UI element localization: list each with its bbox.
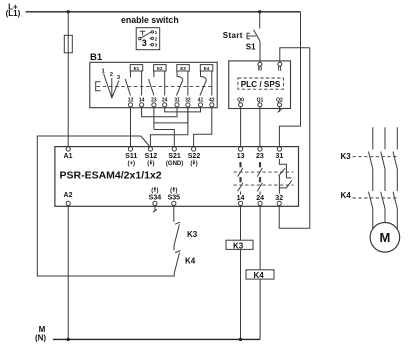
E3 hook arc (177, 77, 183, 81)
E3 blade (177, 80, 183, 95)
PSR contact 13-14 upper fixed (239, 162, 241, 167)
B1 actuator dashed linkage (97, 85, 214, 87)
svg-text:I0: I0 (258, 67, 262, 73)
B1 selector position labels 1 2 3 (102, 68, 120, 81)
svg-text:3: 3 (117, 75, 120, 81)
PSR NC blade 2 (286, 180, 292, 188)
enable switch contact numbers (142, 30, 158, 48)
K4 main blade 2 (381, 192, 385, 209)
phase line 3 lower (396, 209, 398, 230)
wire B1:42 to S22 (194, 107, 212, 147)
svg-text:(N): (N) (35, 333, 46, 342)
wire S1 to I0 (259, 41, 261, 62)
node L+ (L1) label (6, 3, 21, 19)
contact K4 aux tick (175, 251, 180, 253)
PSR contact 23-24 blade 2 (257, 183, 262, 192)
junction dot K3 on M rail (239, 338, 242, 341)
K3 main blade 1 (369, 152, 373, 170)
enable switch contact 2 (149, 38, 151, 40)
PSR top terminal labels (64, 153, 284, 160)
svg-text:S11: S11 (125, 153, 137, 160)
E4 hook arc (201, 77, 207, 81)
motor M circle (370, 223, 400, 253)
wire B1:23 to S21 (154, 130, 174, 147)
PSR terminal 31 (277, 147, 281, 151)
junction dot A2 on M rail (67, 338, 70, 341)
PSR NC contact 31-32 path (279, 159, 291, 194)
E3 fixed lead (176, 71, 178, 77)
PSR terminal A1 (66, 147, 70, 151)
enable switch blade (141, 32, 151, 38)
wire loop I1 to PSR 32 (279, 48, 310, 229)
PSR terminal S35 (172, 201, 176, 205)
svg-text:S21: S21 (168, 153, 181, 160)
wire B1:23 to B1:32 (154, 107, 188, 130)
svg-text:K3: K3 (233, 241, 244, 250)
wire PSR 14 to K3 coil (240, 206, 242, 241)
PSR contact 23-24 upper fixed (259, 162, 261, 167)
switch S1 blade (254, 30, 260, 41)
wire L+ rail (26, 11, 301, 13)
phase line 1 lower (372, 209, 374, 229)
contact K3 aux tick (175, 222, 180, 224)
PSR terminal 32 (277, 201, 281, 205)
enable switch T handle (140, 31, 146, 35)
wire B1:24 to B1:41 (165, 107, 201, 112)
K3 main linkage dashes (353, 156, 399, 158)
wire M(N) rail (53, 338, 260, 340)
svg-text:2: 2 (110, 72, 113, 78)
enable switch contact 3 (149, 44, 151, 46)
svg-text:K4: K4 (185, 257, 196, 266)
junction dot S1 feed (258, 10, 261, 13)
E2 right lead (164, 71, 166, 96)
PSR contact 13-14 blade 1 (238, 168, 243, 177)
svg-text:(GND): (GND) (166, 161, 183, 167)
svg-text:I1: I1 (278, 67, 282, 73)
wire L+ to A1 (67, 12, 69, 147)
PSR terminal S21 (172, 147, 176, 151)
K4 main linkage dashes (353, 197, 399, 199)
E4 right lead (211, 71, 213, 96)
B1 selector arrow head (110, 94, 113, 99)
PSR terminal 23 (258, 147, 262, 151)
B1 terminal labels (128, 97, 215, 103)
PSR bottom terminal labels (64, 192, 284, 202)
wire B1:32 to S12 (150, 107, 188, 147)
E3 right lead (187, 71, 189, 96)
contact block E2 box (154, 65, 167, 71)
PSR contact 23-24 middle fixed (259, 177, 261, 182)
svg-text:E3: E3 (180, 66, 186, 71)
S34 stub with tick (153, 206, 157, 213)
enable switch common contact (139, 37, 141, 39)
svg-text:S34: S34 (149, 195, 162, 202)
PLC output Q1 terminal (258, 103, 262, 107)
svg-text:1: 1 (155, 30, 158, 35)
E2 blade (149, 79, 154, 96)
PSR terminal S34 (153, 201, 157, 205)
PLC output Q2 terminal (278, 103, 282, 107)
PSR contact 13-14 lower lead (240, 191, 242, 194)
PSR contact 13-14 blade 2 (238, 183, 243, 192)
phase line 2 lower (384, 209, 386, 223)
K4 main blade 3 (393, 192, 397, 209)
PSR terminal 14 (238, 201, 242, 205)
PSR contact 13-14 middle fixed (239, 177, 241, 182)
svg-text:K4: K4 (341, 191, 352, 200)
svg-text:E2: E2 (157, 66, 163, 71)
PSR linkage dashes row 2 (234, 184, 294, 186)
svg-text:PLC / SPS: PLC / SPS (241, 80, 281, 89)
E1 blade (125, 79, 130, 96)
contact block E4 box (200, 65, 213, 71)
svg-text:3: 3 (142, 38, 147, 48)
svg-text:K3: K3 (187, 230, 198, 239)
enable switch box (136, 28, 160, 50)
relay PSR-ESAM4 box (55, 147, 299, 207)
svg-text:(+): (+) (128, 161, 136, 167)
PLC output Q0 terminal (239, 103, 243, 107)
phase line 3 middle (396, 169, 398, 191)
svg-text:Start: Start (223, 31, 243, 40)
contact block E3 box (177, 65, 190, 71)
svg-text:K4: K4 (254, 271, 265, 280)
PSR NC blade 1 (278, 168, 285, 176)
svg-text:S12: S12 (145, 153, 158, 160)
E4 fixed lead (200, 71, 202, 77)
relay coil K4 box (246, 270, 274, 279)
contact block E1 box (130, 65, 143, 71)
svg-text:S22: S22 (188, 153, 201, 160)
switch B1 box (90, 62, 217, 107)
svg-text:23: 23 (256, 153, 264, 160)
E2 fixed lead (153, 71, 155, 77)
svg-text:2: 2 (155, 37, 158, 42)
wire B1:14 to B1:31 (142, 107, 177, 117)
svg-text:A1: A1 (64, 153, 73, 160)
wire S35 down (173, 206, 175, 222)
PLC input I1 terminal (278, 62, 282, 66)
three phase line 1 upper (372, 127, 374, 149)
PSR terminal 24 (258, 201, 262, 205)
relay coil K3 box (226, 240, 253, 249)
svg-text:A2: A2 (64, 192, 73, 199)
wire Q1 to PSR 23 (259, 107, 261, 147)
three phase line 3 upper (396, 127, 398, 149)
wire PSR 24 to K4 coil (259, 206, 261, 270)
K4 main blade 1 (369, 192, 373, 209)
wire between aux contacts (173, 246, 175, 251)
PSR terminal S12 (148, 147, 152, 151)
wire I1 up and right (280, 48, 310, 63)
svg-text:(L1): (L1) (6, 9, 21, 18)
wire K4 aux to left loop (37, 136, 174, 276)
PSR terminal A2 (66, 201, 70, 205)
contact K4 aux blade (174, 253, 179, 273)
svg-text:S1: S1 (246, 43, 256, 52)
three phase line 2 upper (384, 127, 386, 149)
svg-text:E4: E4 (204, 66, 210, 71)
junction dot A1 feed (67, 10, 70, 13)
node M (N) label (35, 325, 46, 342)
svg-text:PSR-ESAM4/2x1/1x2: PSR-ESAM4/2x1/1x2 (60, 169, 162, 181)
B1 terminal circles (128, 103, 214, 107)
wire K4 coil to M rail (259, 279, 261, 339)
PLC output labels (237, 97, 283, 103)
PSR terminal 13 (239, 147, 243, 151)
Q2 stub with tick (277, 107, 281, 113)
svg-text:1: 1 (102, 68, 105, 74)
fuse F1 (64, 35, 72, 53)
E1 right lead (141, 71, 143, 96)
wire L+ right drop to PSR 31 (279, 12, 300, 147)
PSR contact 23-24 lower lead (259, 191, 261, 194)
PLC / SPS box (229, 61, 291, 109)
B1 selector V lines (104, 74, 119, 99)
down arrow S12 (151, 160, 194, 164)
svg-text:13: 13 (237, 153, 245, 160)
svg-text:K3: K3 (341, 152, 352, 161)
contact K3 aux blade (174, 224, 179, 245)
wire A2 down to M rail (67, 206, 69, 340)
E1 fixed lead (130, 71, 132, 77)
svg-text:S35: S35 (168, 195, 181, 202)
B1 selector actuator bracket (96, 82, 101, 91)
wire diagonal into S12 (141, 136, 149, 146)
up arrow S34 S35 (155, 188, 174, 192)
svg-text:3: 3 (155, 43, 158, 48)
wire L+ to S1 (259, 12, 261, 29)
svg-text:B1: B1 (90, 52, 103, 63)
svg-text:E1: E1 (134, 66, 140, 71)
wire B1:13 to S11 (130, 107, 132, 147)
wire K3 coil to M rail (240, 249, 242, 339)
svg-text:M: M (379, 230, 390, 245)
S1 actuator bracket (247, 33, 256, 38)
wire Q0 to PSR 13 (240, 107, 242, 147)
phase line 1 middle (372, 169, 374, 191)
PLC input I0 terminal (258, 62, 262, 66)
E4 blade (200, 80, 206, 95)
enable switch contact 1 (151, 31, 153, 33)
PLC / SPS dashed label frame (238, 78, 284, 89)
PSR contact 23-24 blade 1 (257, 168, 262, 177)
K3 main blade 3 (393, 152, 397, 170)
PSR linkage dashes row 1 (234, 171, 294, 173)
phase line 2 middle (384, 169, 386, 191)
svg-text:enable switch: enable switch (121, 15, 179, 25)
PSR terminal S22 (192, 147, 196, 151)
PSR terminal S11 (128, 147, 132, 151)
K3 main blade 2 (381, 152, 385, 170)
